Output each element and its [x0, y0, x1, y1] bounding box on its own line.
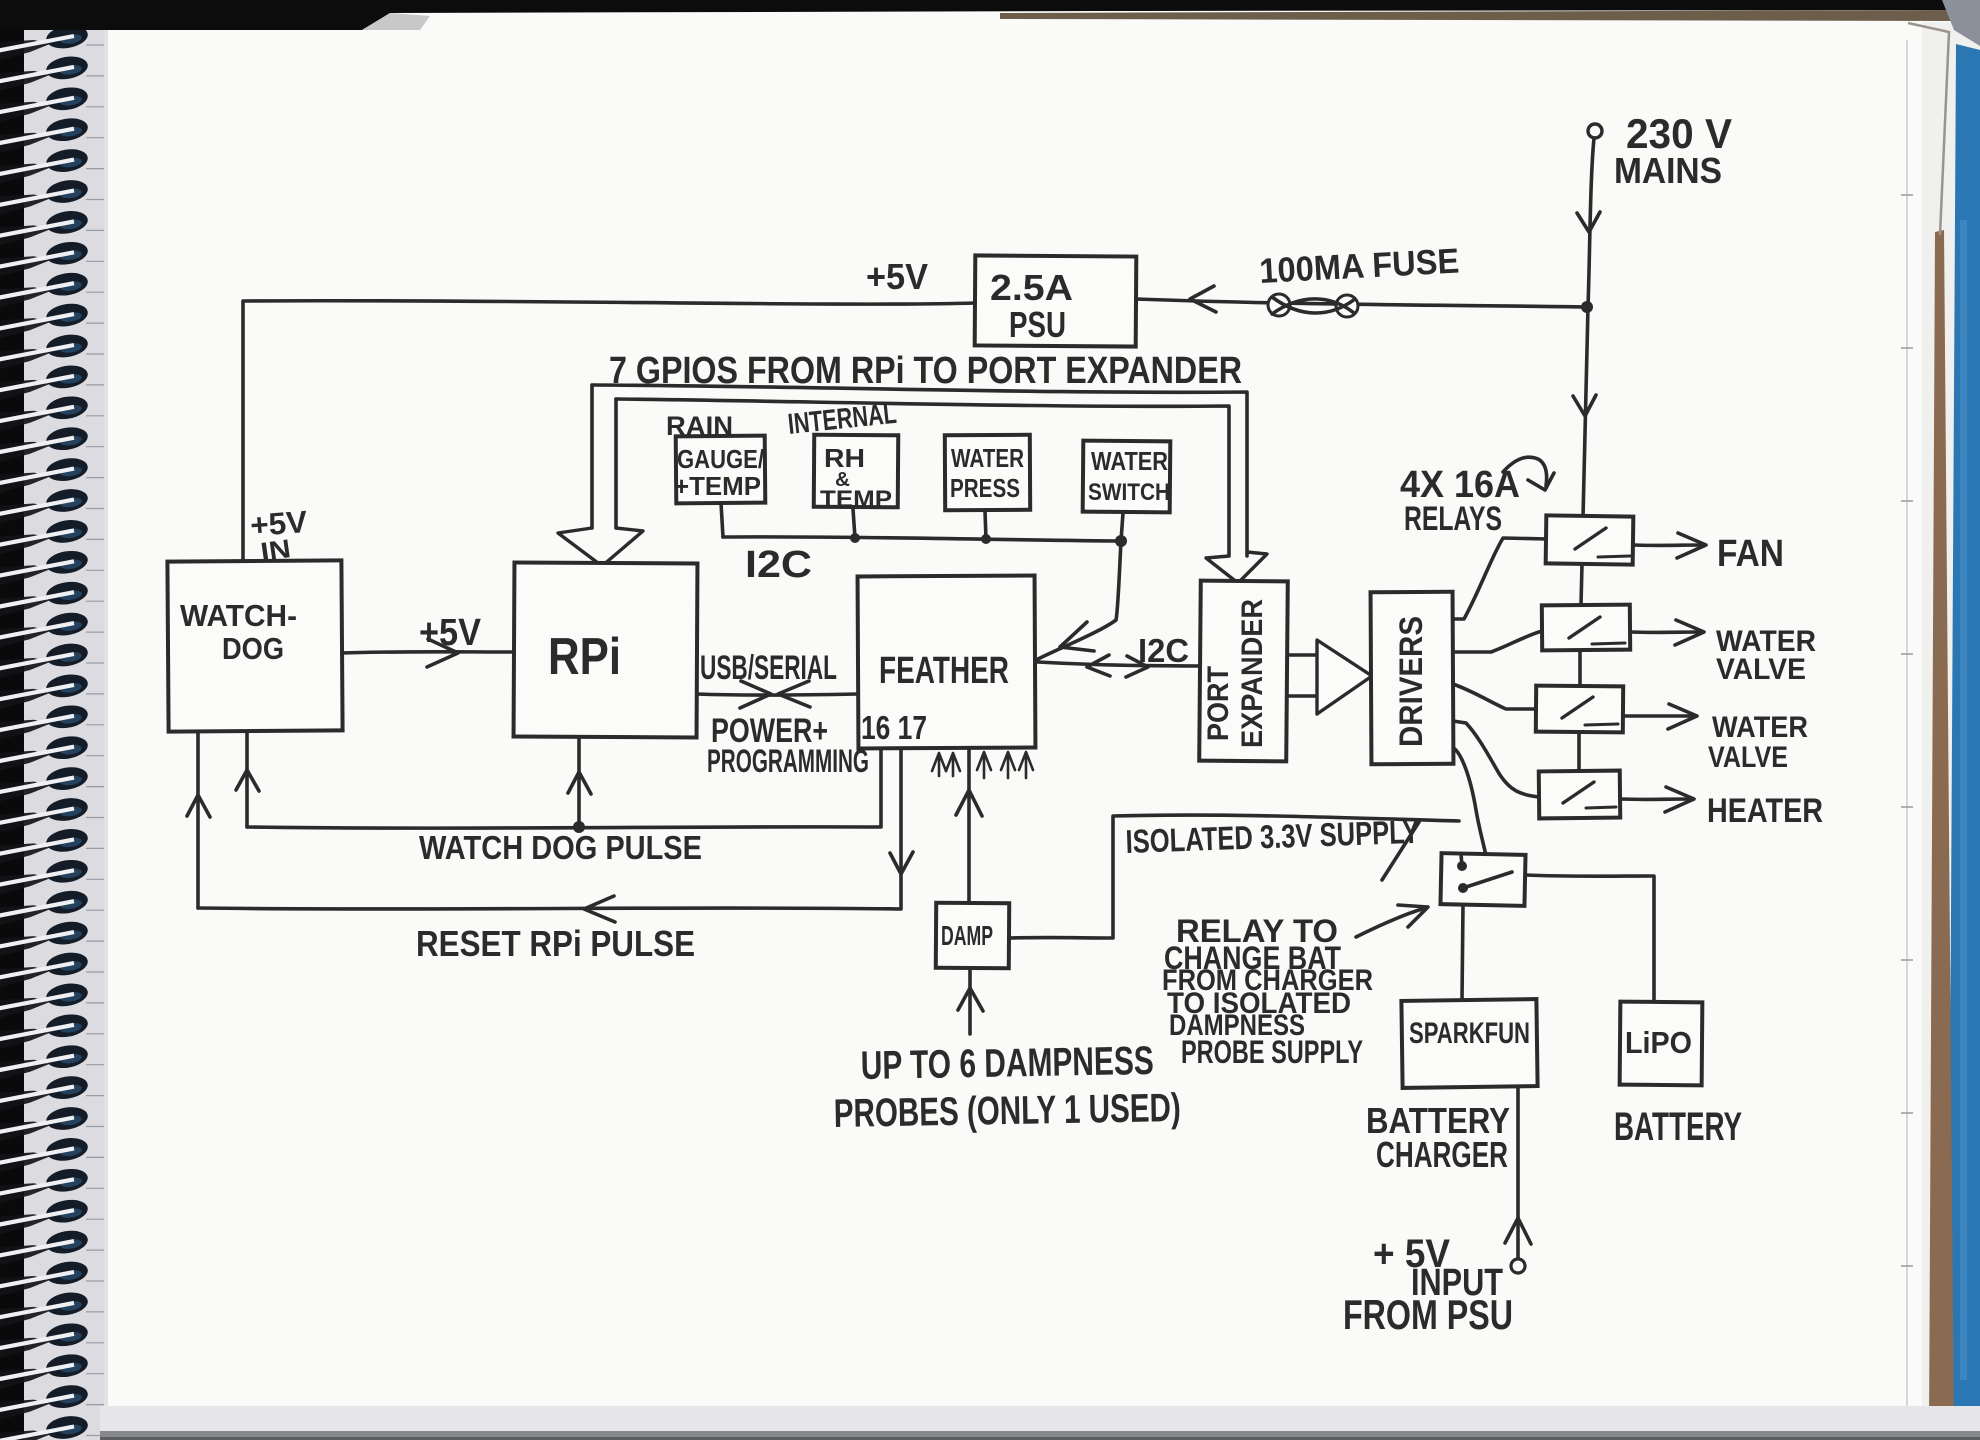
svg-text:SWITCH: SWITCH	[1088, 479, 1170, 506]
svg-text:DOG: DOG	[222, 631, 284, 666]
svg-text:EXPANDER: EXPANDER	[1236, 599, 1269, 748]
svg-text:GAUGE/: GAUGE/	[677, 444, 764, 474]
svg-text:MAINS: MAINS	[1614, 150, 1722, 191]
svg-text:IN: IN	[259, 533, 293, 567]
svg-text:LiPO: LiPO	[1625, 1025, 1692, 1060]
svg-text:PSU: PSU	[1009, 304, 1066, 345]
svg-text:PROBES (ONLY 1 USED): PROBES (ONLY 1 USED)	[833, 1086, 1181, 1136]
svg-text:+TEMP: +TEMP	[674, 471, 761, 501]
svg-text:TEMP: TEMP	[820, 486, 892, 513]
svg-text:BATTERY: BATTERY	[1614, 1105, 1742, 1149]
svg-text:FROM PSU: FROM PSU	[1343, 1291, 1513, 1338]
svg-text:FEATHER: FEATHER	[879, 650, 1009, 692]
svg-text:DRIVERS: DRIVERS	[1393, 616, 1429, 747]
svg-text:VALVE: VALVE	[1708, 741, 1788, 774]
svg-text:WATCH DOG PULSE: WATCH DOG PULSE	[419, 829, 702, 866]
svg-text:+5V: +5V	[866, 256, 928, 297]
svg-text:16 17: 16 17	[861, 709, 927, 746]
svg-text:PRESS: PRESS	[950, 473, 1020, 503]
svg-text:RAIN: RAIN	[666, 411, 733, 441]
svg-text:CHARGER: CHARGER	[1376, 1134, 1508, 1175]
svg-text:PROBE SUPPLY: PROBE SUPPLY	[1181, 1034, 1363, 1070]
svg-text:RESET RPi PULSE: RESET RPi PULSE	[416, 923, 695, 964]
svg-text:RPi: RPi	[548, 628, 621, 686]
svg-text:WATCH-: WATCH-	[180, 598, 297, 633]
svg-text:RELAYS: RELAYS	[1404, 500, 1502, 538]
svg-text:WATER: WATER	[1091, 446, 1168, 476]
svg-text:7 GPIOS FROM RPi TO PORT EXPAN: 7 GPIOS FROM RPi TO PORT EXPANDER	[609, 350, 1242, 392]
svg-text:HEATER: HEATER	[1707, 792, 1823, 830]
svg-text:WATER: WATER	[1712, 711, 1808, 744]
svg-text:I2C: I2C	[1138, 632, 1189, 669]
svg-text:FAN: FAN	[1717, 533, 1784, 575]
svg-text:PORT: PORT	[1202, 666, 1235, 741]
svg-text:DAMP: DAMP	[941, 920, 993, 951]
svg-text:USB/SERIAL: USB/SERIAL	[700, 649, 837, 687]
svg-text:UP TO 6 DAMPNESS: UP TO 6 DAMPNESS	[860, 1039, 1154, 1088]
svg-text:PROGRAMMING: PROGRAMMING	[707, 743, 869, 779]
svg-text:+5V: +5V	[419, 612, 482, 654]
svg-text:2.5A: 2.5A	[990, 267, 1073, 308]
svg-text:VALVE: VALVE	[1716, 653, 1806, 686]
svg-text:SPARKFUN: SPARKFUN	[1409, 1017, 1530, 1050]
svg-text:WATER: WATER	[951, 443, 1024, 473]
svg-text:I2C: I2C	[745, 544, 812, 586]
